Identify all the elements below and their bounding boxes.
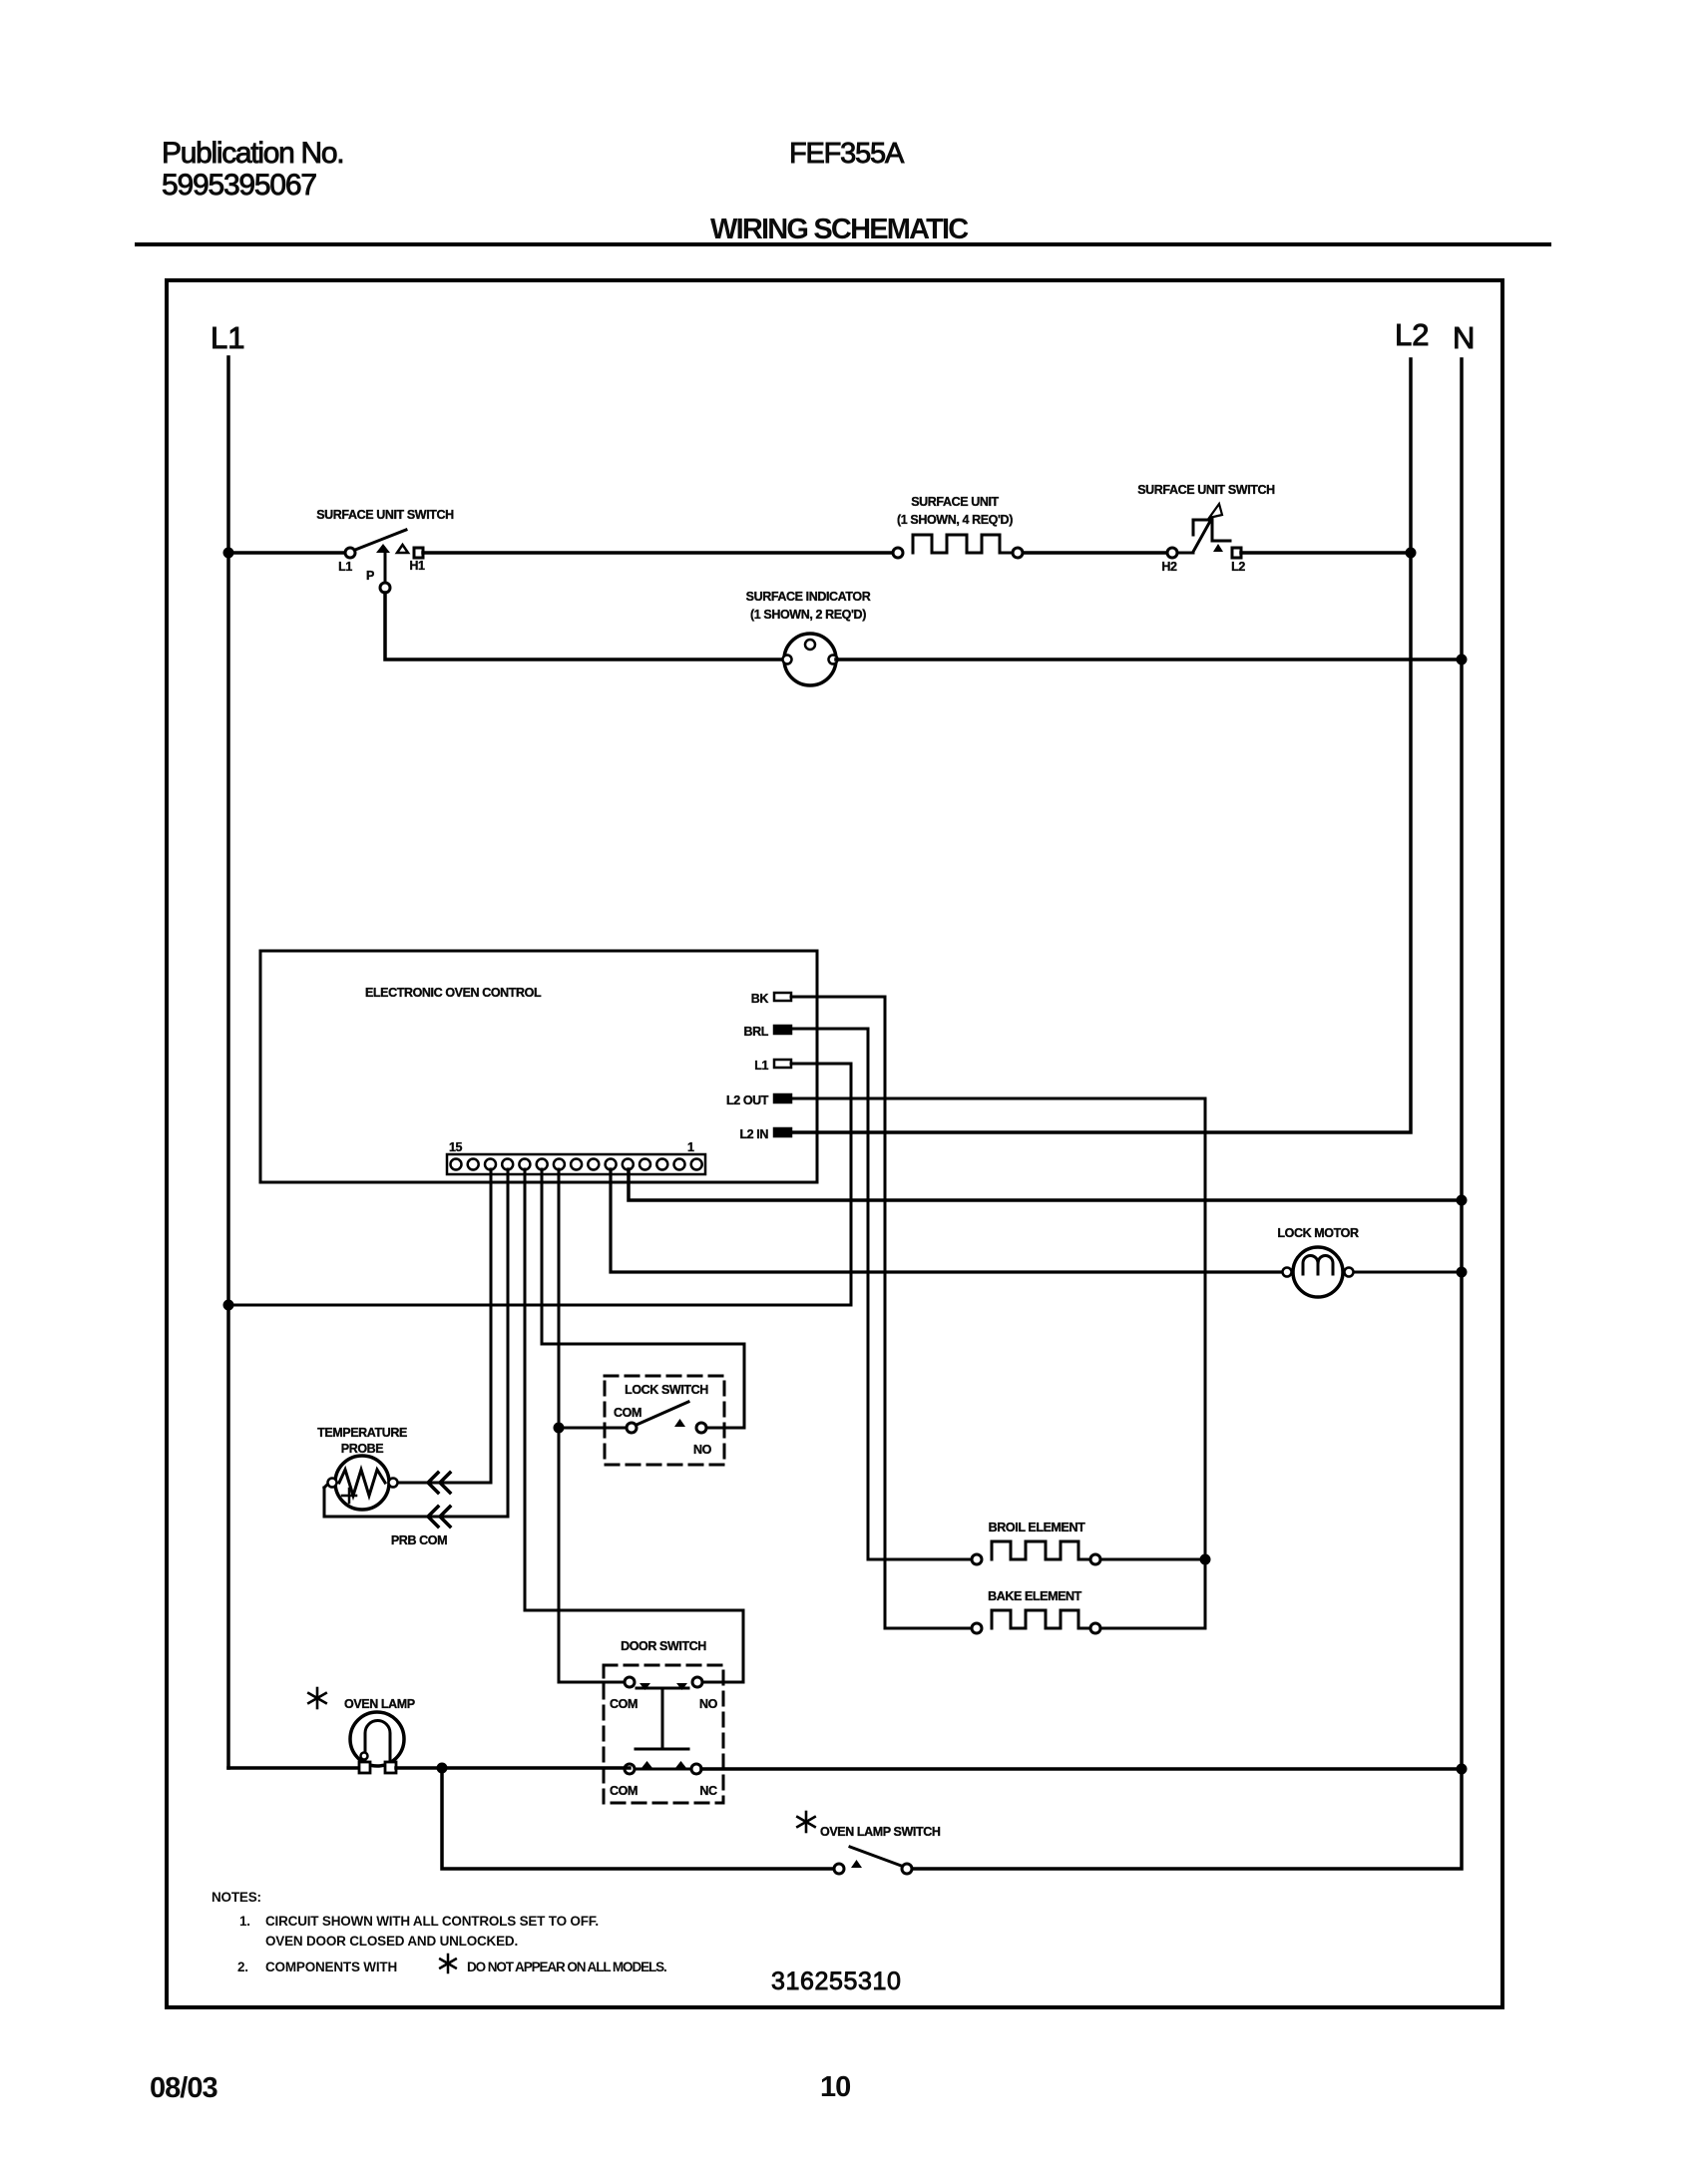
electronic oven control box bbox=[260, 951, 817, 1182]
note 2 bbox=[237, 1960, 397, 1974]
wire lamp switch drop bbox=[442, 1768, 834, 1869]
junction dot broil / L2 OUT line bbox=[1200, 1554, 1211, 1565]
oven lamp asterisk bbox=[308, 1688, 325, 1708]
door switch terminal NC bbox=[691, 1764, 701, 1774]
svg-text:SURFACE UNIT SWITCH: SURFACE UNIT SWITCH bbox=[1137, 483, 1275, 497]
label H1 terminal bbox=[409, 559, 425, 573]
door switch contact triangles upper bbox=[640, 1683, 687, 1690]
junction dot indicator / N bbox=[1457, 655, 1468, 665]
label L1 terminal bbox=[338, 560, 352, 574]
svg-text:H2: H2 bbox=[1161, 560, 1177, 574]
node L2 label bbox=[1395, 317, 1429, 352]
junction dot pin5 wire / N bus bbox=[1457, 1195, 1468, 1206]
junction dot lamp bus / N bus bbox=[1457, 1764, 1468, 1775]
svg-text:OVEN DOOR CLOSED AND UNLOCKED.: OVEN DOOR CLOSED AND UNLOCKED. bbox=[265, 1934, 518, 1949]
note 2 asterisk bbox=[440, 1955, 456, 1972]
temperature probe label 2 bbox=[341, 1442, 384, 1456]
lock switch label bbox=[625, 1383, 708, 1397]
wire P stem bbox=[384, 553, 387, 583]
title header: model FEF355A bbox=[789, 138, 905, 170]
svg-text:L2: L2 bbox=[1231, 560, 1245, 574]
wire top bus to L2 bbox=[1241, 551, 1411, 555]
svg-text:(1 SHOWN, 4 REQ'D): (1 SHOWN, 4 REQ'D) bbox=[897, 513, 1013, 527]
surface unit switch (left) contact triangle bbox=[397, 545, 408, 553]
svg-text:(1 SHOWN, 2 REQ'D): (1 SHOWN, 2 REQ'D) bbox=[750, 608, 866, 622]
door switch NO label bbox=[699, 1697, 718, 1711]
svg-text:L1: L1 bbox=[211, 320, 244, 355]
oven lamp switch contact triangle bbox=[851, 1860, 862, 1868]
EOC terminal L2 IN label bbox=[739, 1127, 768, 1141]
EOC terminal L2 OUT label bbox=[726, 1093, 769, 1107]
svg-text:CIRCUIT SHOWN WITH ALL CONTROL: CIRCUIT SHOWN WITH ALL CONTROLS SET TO O… bbox=[265, 1914, 599, 1929]
svg-text:15: 15 bbox=[449, 1140, 463, 1154]
broil element label bbox=[989, 1521, 1085, 1534]
pin number 15 bbox=[449, 1140, 463, 1154]
lock switch terminal NO bbox=[696, 1423, 706, 1433]
surface unit switch (right) blade with arrow bbox=[1177, 504, 1230, 553]
wire pin12 to probe common bbox=[324, 1169, 508, 1517]
wire lock motor to N bus bbox=[1354, 1271, 1462, 1274]
svg-text:FEF355A: FEF355A bbox=[789, 138, 905, 170]
wire BRL tab to broil element bbox=[791, 1029, 973, 1559]
surface unit label bbox=[911, 495, 999, 509]
wire pin13 to temperature probe bbox=[398, 1169, 491, 1483]
lock motor label bbox=[1277, 1226, 1359, 1240]
svg-text:Publication No.: Publication No. bbox=[162, 137, 343, 170]
svg-text:WIRING SCHEMATIC: WIRING SCHEMATIC bbox=[710, 214, 969, 245]
svg-text:TEMPERATURE: TEMPERATURE bbox=[317, 1426, 407, 1440]
junction dot L1 / top bus bbox=[223, 548, 234, 559]
svg-text:COM: COM bbox=[610, 1784, 638, 1798]
node N label bbox=[1453, 320, 1475, 355]
oven lamp switch terminal left bbox=[834, 1864, 844, 1874]
svg-text:OVEN LAMP SWITCH: OVEN LAMP SWITCH bbox=[820, 1825, 941, 1839]
wire lamp to junction bbox=[396, 1766, 630, 1770]
terminal P circle bbox=[380, 583, 390, 593]
EOC terminal BRL tab bbox=[774, 1026, 791, 1034]
svg-text:L2: L2 bbox=[1395, 317, 1429, 352]
lock switch terminal COM bbox=[627, 1423, 637, 1433]
oven lamp switch label bbox=[820, 1825, 941, 1839]
svg-text:OVEN LAMP: OVEN LAMP bbox=[344, 1697, 415, 1711]
EOC terminal L2 OUT tab bbox=[774, 1094, 791, 1102]
svg-text:PROBE: PROBE bbox=[341, 1442, 384, 1456]
door switch plunger bbox=[636, 1688, 688, 1749]
svg-text:BRL: BRL bbox=[744, 1025, 769, 1039]
temperature probe label bbox=[317, 1426, 407, 1440]
wire broil to L2 OUT line bbox=[1101, 1558, 1205, 1561]
door switch NC label bbox=[699, 1784, 717, 1798]
svg-text:BK: BK bbox=[751, 992, 769, 1006]
wire top bus middle segment bbox=[423, 551, 893, 555]
title header: Publication No. bbox=[162, 137, 343, 170]
wire lamp bus left bbox=[228, 1766, 358, 1770]
svg-text:SURFACE INDICATOR: SURFACE INDICATOR bbox=[746, 590, 871, 604]
title header: publication number 5995395067 bbox=[162, 169, 316, 202]
wire L1 tab to L1 bus bbox=[228, 1064, 851, 1305]
lock switch blade bbox=[637, 1402, 688, 1425]
node L1 label bbox=[211, 320, 244, 355]
probe chevron connector common bbox=[428, 1507, 450, 1527]
lock switch NO label bbox=[693, 1443, 712, 1457]
wire N vertical bus bbox=[912, 359, 1462, 1869]
junction dot lock motor / N bus bbox=[1457, 1267, 1468, 1278]
svg-text:NO: NO bbox=[699, 1697, 718, 1711]
broil element bbox=[972, 1541, 1100, 1564]
svg-text:P: P bbox=[366, 569, 374, 583]
surface unit switch (left) terminal H1 bbox=[414, 548, 423, 558]
svg-text:316255310: 316255310 bbox=[771, 1967, 902, 1995]
svg-text:LOCK MOTOR: LOCK MOTOR bbox=[1277, 1226, 1359, 1240]
label H2 terminal bbox=[1161, 560, 1177, 574]
svg-text:1: 1 bbox=[687, 1140, 694, 1154]
wire pin9 to door switch COM bbox=[559, 1169, 625, 1682]
oven lamp switch terminal right bbox=[902, 1864, 912, 1874]
surface unit switch (right) terminal L2 bbox=[1232, 548, 1241, 558]
wire top bus right segment bbox=[1024, 551, 1167, 555]
svg-text:LOCK SWITCH: LOCK SWITCH bbox=[625, 1383, 708, 1397]
junction dot lamp bus / lamp switch drop bbox=[437, 1763, 448, 1774]
surface unit label 2 bbox=[897, 513, 1013, 527]
svg-text:10: 10 bbox=[820, 2071, 850, 2103]
bake element bbox=[972, 1610, 1100, 1633]
svg-text:COM: COM bbox=[614, 1406, 641, 1420]
door switch COM upper label bbox=[610, 1697, 638, 1711]
junction dot top bus / L2 bbox=[1406, 548, 1417, 559]
wire pin10 to lock switch NO bbox=[542, 1169, 744, 1428]
EOC terminal BK label bbox=[751, 992, 769, 1006]
temperature probe RT1 bbox=[328, 1456, 398, 1510]
door switch terminal NO bbox=[692, 1677, 702, 1687]
svg-text:L1: L1 bbox=[338, 560, 352, 574]
note 1 line 2 bbox=[265, 1934, 518, 1949]
door switch terminal COM lower bbox=[625, 1764, 635, 1774]
svg-text:H1: H1 bbox=[409, 559, 425, 573]
lock switch box bbox=[605, 1376, 724, 1465]
oven lamp switch asterisk bbox=[797, 1812, 814, 1832]
svg-text:NO: NO bbox=[693, 1443, 712, 1457]
wire L2 OUT tab down right side bbox=[791, 1098, 1205, 1628]
svg-text:SURFACE UNIT SWITCH: SURFACE UNIT SWITCH bbox=[316, 508, 454, 522]
svg-text:BROIL ELEMENT: BROIL ELEMENT bbox=[989, 1521, 1085, 1534]
label L2 terminal bbox=[1231, 560, 1245, 574]
wire indicator to N bbox=[836, 657, 1462, 661]
junction dot pin9 / lock switch COM bbox=[554, 1423, 565, 1434]
wire junction to lock switch COM bbox=[559, 1427, 627, 1430]
wire L1 vertical bus bbox=[226, 357, 230, 1768]
wire lamp bus right bbox=[701, 1767, 1462, 1771]
svg-text:08/03: 08/03 bbox=[150, 2072, 217, 2104]
footer date 08/03 bbox=[150, 2072, 217, 2104]
door switch terminal COM upper bbox=[625, 1677, 635, 1687]
title: WIRING SCHEMATIC bbox=[710, 214, 969, 245]
pin number 1 bbox=[687, 1140, 694, 1154]
note 2 rest bbox=[467, 1960, 666, 1974]
surface unit switch (left) blade bbox=[355, 530, 406, 550]
wire top bus left segment bbox=[228, 551, 345, 555]
surface unit switch (left) contact P triangle bbox=[376, 544, 390, 553]
svg-text:2.: 2. bbox=[237, 1960, 248, 1974]
surface unit switch (right) label bbox=[1137, 483, 1275, 497]
svg-text:NOTES:: NOTES: bbox=[212, 1890, 261, 1905]
EOC terminal L1 label bbox=[754, 1059, 768, 1073]
EOC terminal BK tab bbox=[774, 993, 791, 1001]
probe common label PRB COM bbox=[391, 1533, 447, 1547]
lock motor M1 bbox=[1283, 1247, 1354, 1297]
wire BK tab to bake element bbox=[791, 997, 973, 1628]
door switch contact triangles lower bbox=[641, 1761, 686, 1768]
surface unit switch (left) terminal L1 bbox=[345, 548, 355, 558]
wire L2 vertical feed bbox=[791, 359, 1411, 1132]
wire probe left lead bbox=[324, 1485, 327, 1488]
door switch COM lower label bbox=[610, 1784, 638, 1798]
wire pin6 to lock motor bbox=[611, 1169, 1282, 1272]
surface unit switch (right) terminal H2 bbox=[1167, 548, 1177, 558]
bake element label bbox=[988, 1589, 1082, 1603]
junction dot L1 wire / L1 bus bbox=[223, 1300, 234, 1311]
door switch label bbox=[621, 1639, 706, 1653]
surface indicator lamp bbox=[783, 634, 838, 685]
note 1 line 1 bbox=[239, 1914, 599, 1929]
wire P to indicator bbox=[385, 593, 784, 659]
door switch box bbox=[604, 1665, 723, 1803]
footer page 10 bbox=[820, 2071, 850, 2103]
svg-text:PRB COM: PRB COM bbox=[391, 1533, 447, 1547]
title rule bbox=[137, 242, 1549, 246]
svg-text:BAKE ELEMENT: BAKE ELEMENT bbox=[988, 1589, 1082, 1603]
svg-text:L2 OUT: L2 OUT bbox=[726, 1093, 769, 1107]
wire pin11 to door switch NO bbox=[525, 1169, 743, 1682]
svg-text:COM: COM bbox=[610, 1697, 638, 1711]
lock switch COM label bbox=[614, 1406, 641, 1420]
oven lamp switch blade bbox=[850, 1847, 904, 1867]
lock switch contact triangle bbox=[674, 1419, 685, 1427]
svg-text:ELECTRONIC OVEN CONTROL: ELECTRONIC OVEN CONTROL bbox=[365, 986, 542, 1000]
surface unit heater element bbox=[893, 535, 1023, 558]
svg-text:1.: 1. bbox=[239, 1914, 250, 1929]
electronic oven control label bbox=[365, 986, 542, 1000]
surface indicator label 2 bbox=[750, 608, 866, 622]
EOC connector strip bbox=[447, 1154, 705, 1174]
EOC terminal L1 tab bbox=[774, 1060, 791, 1068]
surface unit switch (right) contact triangle bbox=[1213, 544, 1223, 552]
probe chevron connector right bbox=[428, 1473, 450, 1493]
oven lamp label bbox=[344, 1697, 415, 1711]
svg-text:COMPONENTS WITH: COMPONENTS WITH bbox=[265, 1960, 397, 1974]
label P terminal bbox=[366, 569, 374, 583]
svg-text:DOOR SWITCH: DOOR SWITCH bbox=[621, 1639, 706, 1653]
EOC terminal BRL label bbox=[744, 1025, 769, 1039]
svg-text:SURFACE UNIT: SURFACE UNIT bbox=[911, 495, 999, 509]
notes heading bbox=[212, 1890, 261, 1905]
wire door switch COM-NC gap bbox=[635, 1768, 691, 1771]
svg-text:L2 IN: L2 IN bbox=[739, 1127, 768, 1141]
surface unit switch (left) label bbox=[316, 508, 454, 522]
svg-text:DO NOT APPEAR ON ALL MODELS.: DO NOT APPEAR ON ALL MODELS. bbox=[467, 1960, 666, 1974]
svg-text:N: N bbox=[1453, 320, 1475, 355]
part number 316255310 bbox=[771, 1967, 902, 1995]
svg-text:L1: L1 bbox=[754, 1059, 768, 1073]
svg-text:5995395067: 5995395067 bbox=[162, 169, 316, 202]
oven lamp LAMP1 bbox=[350, 1712, 404, 1773]
svg-text:NC: NC bbox=[699, 1784, 717, 1798]
wire pin5 to N bus bbox=[629, 1169, 1462, 1200]
EOC terminal L2 IN tab bbox=[774, 1128, 791, 1136]
surface indicator label bbox=[746, 590, 871, 604]
